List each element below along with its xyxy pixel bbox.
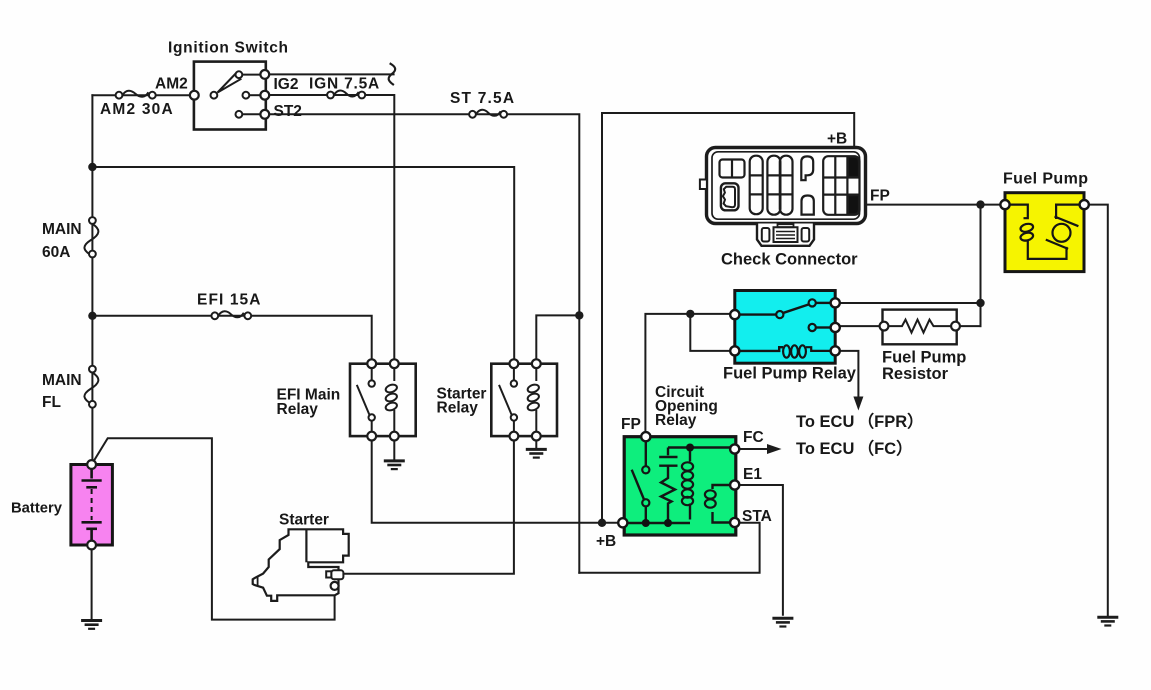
fusible link MAIN 60A bbox=[84, 217, 98, 257]
wire EFI main relay output to +B terminal bbox=[372, 436, 623, 523]
wire resistor to FP node bbox=[956, 325, 981, 327]
fuse EFI 15A bbox=[211, 311, 251, 319]
ignition switch terminal IG2 bbox=[260, 91, 269, 100]
junction node main/starter-relay feed bbox=[88, 163, 96, 171]
check connector latch bbox=[757, 224, 814, 246]
battery bbox=[71, 460, 113, 549]
junction node +B bbox=[598, 519, 606, 527]
ground starter relay bbox=[526, 449, 547, 457]
fuse IGN 7.5A bbox=[327, 90, 365, 98]
circuit opening relay terminal E1 bbox=[730, 480, 739, 489]
wire FC output bbox=[735, 448, 767, 450]
wire FP node vertical bbox=[980, 205, 982, 327]
starter terminal block bbox=[326, 571, 331, 577]
circuit opening relay STA coil bbox=[713, 485, 731, 489]
fuel pump relay switch pivot contact bbox=[776, 311, 783, 318]
svg-text:FP: FP bbox=[870, 188, 890, 205]
svg-text:IG2: IG2 bbox=[274, 76, 299, 93]
ignition switch movable arm wedge bbox=[218, 73, 241, 93]
svg-text:+B: +B bbox=[827, 131, 847, 148]
EFI relay switch upper contact bbox=[369, 380, 375, 386]
check connector bbox=[700, 148, 866, 246]
svg-text:MAIN: MAIN bbox=[42, 372, 82, 389]
svg-text:Resistor: Resistor bbox=[882, 365, 949, 383]
wire E1 to ground bbox=[735, 485, 783, 615]
wire fuel pump relay NO contact to FP node bbox=[835, 302, 980, 304]
svg-text:STA: STA bbox=[742, 508, 772, 525]
fuel pump relay NC inner contact bbox=[809, 324, 816, 331]
wire fuel pump to ground bbox=[1084, 205, 1108, 617]
wire starter relay coil feed from ST line bbox=[536, 315, 579, 363]
svg-text:EFI 15A: EFI 15A bbox=[197, 292, 262, 309]
circuit opening relay terminal +B bbox=[618, 518, 627, 527]
svg-text:To ECU （FPR）: To ECU （FPR） bbox=[796, 411, 924, 431]
svg-text:Ignition Switch: Ignition Switch bbox=[168, 40, 289, 57]
fuel pump bbox=[1000, 193, 1088, 272]
wire ignition ST2 through ST 7.5A fuse down to STA line bbox=[266, 114, 580, 573]
svg-text:FP: FP bbox=[621, 416, 641, 433]
junction node FP at fuel pump bbox=[976, 200, 984, 208]
ignition switch IG2 fixed contact bbox=[243, 92, 250, 99]
svg-text:MAIN: MAIN bbox=[42, 221, 82, 238]
circuit opening relay terminal FC bbox=[730, 444, 739, 453]
wire EFI 15A feed to EFI main relay bbox=[92, 316, 371, 364]
circuit opening relay bbox=[618, 432, 739, 535]
starter battery terminal bbox=[331, 582, 339, 590]
EFI main relay U1 bbox=[350, 359, 416, 440]
junction node ST line / starter relay coil bbox=[575, 311, 583, 319]
circuit opening relay internal junction dots bbox=[686, 444, 694, 452]
circuit opening relay switch bbox=[645, 440, 647, 466]
check connector slot group B bbox=[767, 156, 780, 215]
check connector side tab bbox=[700, 180, 707, 190]
ignition switch terminal ST2 bbox=[260, 110, 269, 119]
svg-text:+B: +B bbox=[596, 533, 616, 550]
wire AM2 feed horizontal bbox=[92, 94, 194, 96]
svg-text:Fuel Pump: Fuel Pump bbox=[882, 349, 966, 367]
fuel pump relay terminals bbox=[730, 310, 739, 319]
starter nose band bbox=[257, 577, 259, 586]
svg-text:AM2 30A: AM2 30A bbox=[100, 101, 174, 118]
EFI relay switch arm bbox=[357, 385, 370, 415]
wire battery negative to ground bbox=[91, 545, 93, 620]
starter solenoid divider bbox=[305, 529, 307, 562]
resistor terminals bbox=[880, 322, 889, 331]
svg-text:Relay: Relay bbox=[277, 401, 319, 418]
ignition switch arm tip contact bbox=[236, 71, 243, 78]
wire starter relay switch feed (node after MAIN 60A to starter relay) bbox=[92, 167, 514, 364]
fuel pump right terminal bbox=[1080, 200, 1089, 209]
svg-text:Relay: Relay bbox=[655, 412, 697, 429]
arrow to ECU FPR bbox=[853, 397, 863, 411]
fuse ST 7.5A bbox=[469, 110, 507, 118]
ignition switch terminal IG1 bbox=[260, 70, 269, 79]
starter relay terminals bbox=[510, 359, 519, 368]
check connector keyed slot bbox=[721, 183, 739, 210]
fuel pump left terminal bbox=[1000, 200, 1009, 209]
check connector slot group C bbox=[823, 156, 859, 215]
svg-text:FC: FC bbox=[743, 429, 764, 446]
wire ignition IG2 through IGN 7.5A fuse to EFI main relay coil bbox=[266, 95, 395, 364]
starter relay switch lower contact bbox=[511, 414, 517, 420]
junction node FP line / fuel pump relay coil bbox=[686, 310, 694, 318]
ignition switch arm pivot contact bbox=[211, 92, 218, 99]
svg-text:AM2: AM2 bbox=[155, 76, 188, 93]
circuit opening relay terminal FP bbox=[641, 432, 650, 441]
ignition switch box bbox=[190, 62, 269, 130]
svg-text:IGN 7.5A: IGN 7.5A bbox=[309, 76, 380, 93]
svg-text:E1: E1 bbox=[743, 466, 762, 483]
wire battery positive to starter bbox=[92, 438, 335, 619]
wire fuel pump relay coil branch bbox=[690, 314, 735, 351]
starter relay switch upper contact bbox=[511, 380, 517, 386]
ground EFI main relay bbox=[384, 461, 405, 469]
wire EFI main relay coil to ground bbox=[393, 436, 395, 460]
fuel pump resistor R1 bbox=[880, 310, 960, 345]
check connector slot group A bbox=[750, 156, 763, 215]
check connector small slot lower bbox=[802, 196, 814, 215]
check connector +B pin (black) bbox=[849, 157, 859, 176]
fuel pump relay switch bbox=[740, 313, 776, 315]
circuit opening relay FC line bbox=[668, 446, 730, 448]
check connector small slot upper bbox=[801, 156, 813, 180]
starter relay switch arm bbox=[499, 385, 512, 415]
starter relay coil bbox=[535, 367, 537, 381]
battery positive terminal bbox=[87, 460, 96, 469]
svg-text:To ECU （FC）: To ECU （FC） bbox=[796, 438, 913, 458]
starter motor M1 bbox=[253, 529, 349, 601]
wire +B vertical to +B node bbox=[601, 113, 603, 523]
fuel pump relay NO inner contact bbox=[809, 299, 816, 306]
wire circuit opening relay FP terminal to fuel pump relay common bbox=[645, 314, 734, 436]
wire check connector FP to fuel pump bbox=[862, 204, 1005, 206]
svg-text:Starter: Starter bbox=[279, 512, 329, 529]
wire STA line from circuit opening relay bbox=[579, 523, 759, 573]
wire battery main vertical bbox=[91, 95, 93, 464]
check connector 2-cell slot bbox=[720, 160, 745, 178]
svg-text:ST 7.5A: ST 7.5A bbox=[450, 90, 515, 107]
EFI relay coil bbox=[393, 367, 395, 381]
wire starter relay coil to ground bbox=[535, 436, 537, 448]
junction node main/EFI 15A bbox=[88, 312, 96, 320]
ground battery bbox=[81, 621, 102, 629]
wire break symbol bbox=[389, 64, 396, 85]
fuse AM2 30A bbox=[116, 91, 156, 99]
ignition switch terminal AM2 bbox=[190, 91, 199, 100]
fuel pump motor armature bbox=[1056, 205, 1079, 219]
ground E1 bbox=[772, 618, 793, 626]
fuel pump relay bbox=[730, 291, 840, 364]
fuel pump motor coil bbox=[1010, 205, 1028, 219]
circuit opening relay bottom rail bbox=[628, 522, 690, 524]
circuit opening relay capacitor + resistor branch bbox=[667, 448, 669, 456]
svg-text:FL: FL bbox=[42, 394, 61, 411]
circuit opening relay main coil bbox=[689, 448, 691, 462]
svg-text:Fuel Pump: Fuel Pump bbox=[1003, 171, 1088, 188]
junction node FP at relay contact level bbox=[976, 299, 984, 307]
wire ignition IG1 output (upper, with break) bbox=[266, 73, 394, 75]
fusible link MAIN FL bbox=[84, 366, 98, 408]
wire +B drop from check connector bbox=[602, 113, 854, 150]
wire fuel pump relay NC contact to resistor bbox=[835, 325, 884, 327]
svg-text:60A: 60A bbox=[42, 244, 70, 261]
battery negative terminal bbox=[87, 541, 96, 550]
wire starter relay output to starter solenoid bbox=[344, 436, 514, 574]
svg-text:Check Connector: Check Connector bbox=[721, 251, 858, 269]
wire fuel pump relay coil output to ECU FPR bbox=[835, 351, 858, 397]
fuel pump relay coil bbox=[740, 347, 784, 351]
ground fuel pump bbox=[1097, 617, 1118, 625]
starter relay U2 bbox=[491, 359, 557, 440]
ignition switch ST2 fixed contact bbox=[236, 111, 243, 118]
circuit opening relay switch contacts bbox=[642, 466, 649, 473]
EFI relay terminals bbox=[367, 359, 376, 368]
circuit opening relay terminal STA bbox=[730, 518, 739, 527]
check connector FP pin (black) bbox=[849, 196, 859, 214]
svg-text:Relay: Relay bbox=[437, 400, 479, 417]
EFI relay switch lower contact bbox=[369, 414, 375, 420]
svg-text:Battery: Battery bbox=[11, 501, 63, 517]
arrow to ECU FC bbox=[767, 444, 782, 454]
svg-text:Fuel Pump Relay: Fuel Pump Relay bbox=[723, 365, 857, 383]
svg-text:ST2: ST2 bbox=[274, 103, 302, 120]
